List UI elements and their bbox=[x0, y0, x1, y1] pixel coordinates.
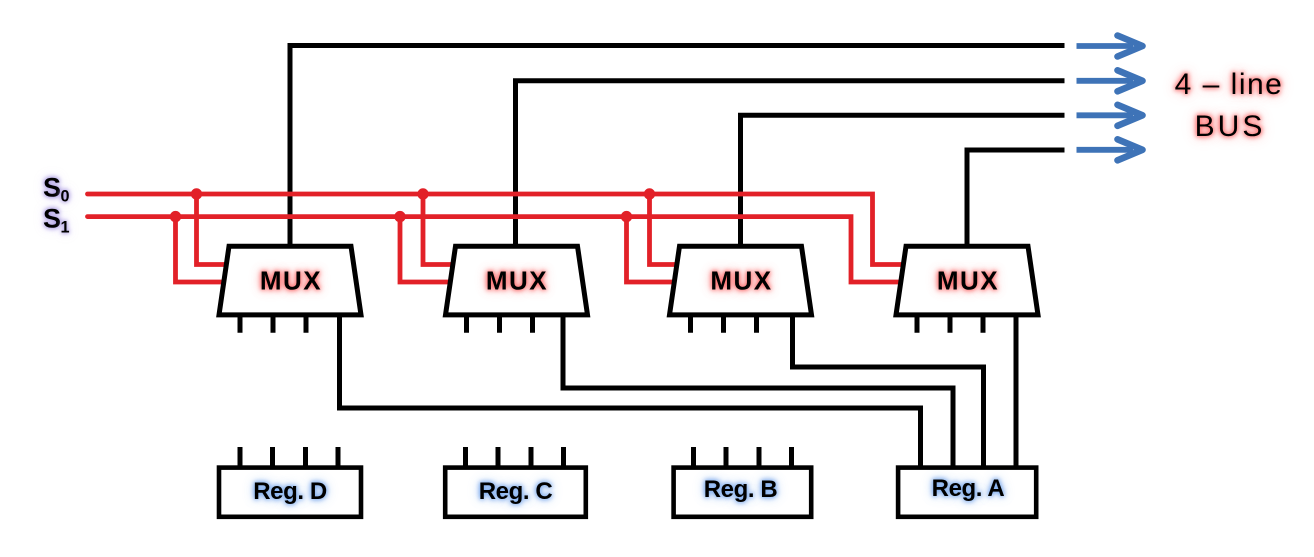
bus arrow 3 bbox=[1077, 105, 1143, 126]
net S1 select line bbox=[88, 217, 908, 282]
register Reg. C pins bbox=[466, 447, 564, 466]
wire S0 branch to MUX1 bbox=[197, 194, 233, 265]
net S0 select line bbox=[88, 194, 910, 265]
junction S0-MUX2 bbox=[417, 188, 428, 199]
mux U4 input pins bbox=[917, 317, 983, 333]
label MUX U2 bbox=[486, 266, 548, 297]
bus arrow 4 bbox=[1077, 139, 1143, 160]
wire MUX4 output to bus line 4 bbox=[967, 150, 1065, 250]
register Reg. B pins bbox=[694, 447, 792, 466]
register Reg. C body bbox=[445, 468, 586, 517]
label Reg. C bbox=[479, 478, 553, 506]
mux U3 body bbox=[670, 246, 812, 315]
wire MUX3 output to bus line 3 bbox=[741, 115, 1065, 250]
label MUX U3 bbox=[710, 266, 772, 297]
bus arrow 2 bbox=[1077, 70, 1143, 91]
label MUX U4 bbox=[937, 266, 999, 297]
mux U1 input pins bbox=[240, 317, 306, 333]
junction S0-MUX1 bbox=[191, 188, 202, 199]
wire MUX3 input from Reg. A bbox=[793, 310, 984, 470]
label S0 bbox=[43, 173, 69, 204]
label Reg. A bbox=[932, 475, 1005, 503]
wire MUX2 output to bus line 2 bbox=[516, 81, 1065, 250]
register Reg. D pins bbox=[240, 447, 338, 466]
bus arrow 1 bbox=[1077, 36, 1143, 57]
label Reg. B bbox=[704, 476, 778, 504]
label S1 bbox=[43, 204, 69, 235]
wire S1 branch to MUX2 bbox=[400, 217, 456, 282]
wire S1 branch to MUX3 bbox=[627, 217, 681, 282]
register Reg. D body bbox=[219, 468, 361, 517]
mux U1 body bbox=[219, 246, 361, 315]
wire MUX4 input from Reg. A bbox=[1014, 310, 1019, 470]
mux U3 input pins bbox=[691, 317, 757, 333]
mux U2 input pins bbox=[467, 317, 533, 333]
wire S1 branch to MUX1 bbox=[176, 217, 231, 282]
register Reg. A body bbox=[898, 468, 1036, 517]
junction S0-MUX3 bbox=[644, 188, 655, 199]
label BUS bbox=[1195, 110, 1266, 144]
label Reg. D bbox=[253, 478, 327, 506]
junction S1-MUX3 bbox=[621, 211, 632, 222]
wire S0 branch to MUX3 bbox=[650, 194, 683, 265]
label MUX U1 bbox=[260, 266, 322, 297]
wire S0 branch to MUX2 bbox=[423, 194, 458, 265]
wire MUX1 output to bus line 1 bbox=[290, 46, 1065, 251]
mux U2 body bbox=[446, 246, 588, 315]
wire MUX1 input from Reg. A bbox=[340, 310, 921, 470]
junction S1-MUX1 bbox=[170, 211, 181, 222]
label 4-line BUS bbox=[1175, 68, 1284, 102]
register Reg. B body bbox=[674, 468, 812, 517]
junction S1-MUX2 bbox=[394, 211, 405, 222]
mux U4 body bbox=[896, 246, 1038, 315]
wire MUX2 input from Reg. A bbox=[563, 310, 953, 470]
